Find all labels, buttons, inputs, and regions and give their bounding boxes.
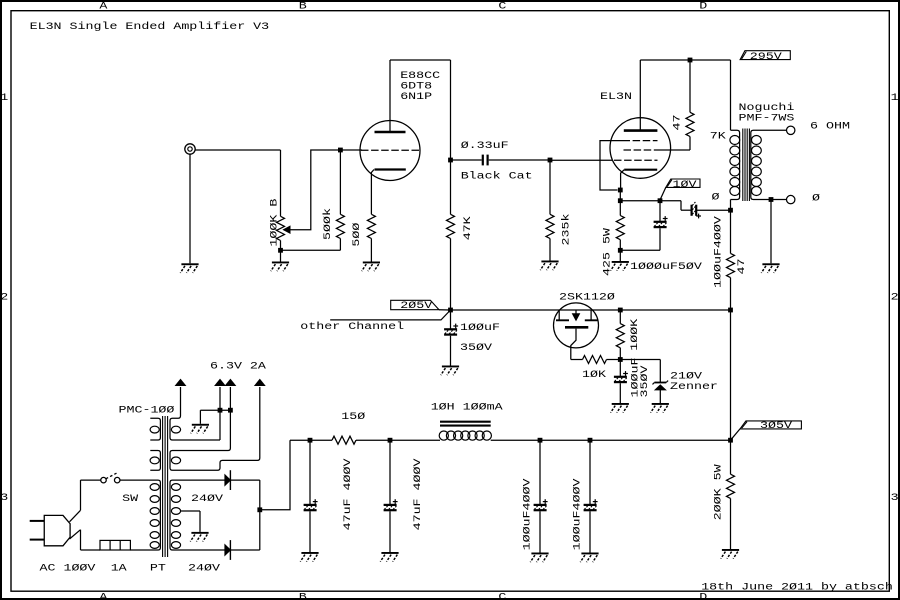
svg-text:PMF-7WS: PMF-7WS: [739, 112, 795, 124]
svg-text:18th June 2Ø11 by atbsch: 18th June 2Ø11 by atbsch: [701, 581, 893, 593]
svg-text:1ØØK: 1ØØK: [628, 318, 640, 351]
svg-text:Zenner: Zenner: [670, 380, 718, 392]
svg-text:7K: 7K: [710, 130, 727, 142]
svg-text:15Ø: 15Ø: [341, 410, 365, 422]
svg-text:EL3N Single Ended Amplifier V3: EL3N Single Ended Amplifier V3: [30, 20, 270, 32]
svg-text:1ØØuF4ØØV: 1ØØuF4ØØV: [712, 215, 724, 288]
svg-text:295V: 295V: [750, 50, 783, 62]
svg-text:1ØØuF: 1ØØuF: [460, 321, 500, 333]
svg-text:47K: 47K: [461, 215, 473, 240]
svg-text:47uF 4ØØV: 47uF 4ØØV: [341, 458, 353, 531]
svg-text:B: B: [299, 591, 307, 600]
svg-text:C: C: [498, 0, 506, 12]
svg-text:Ø: Ø: [812, 192, 820, 204]
svg-text:A: A: [99, 591, 108, 600]
svg-text:PT: PT: [150, 562, 166, 574]
svg-text:1ØV: 1ØV: [673, 178, 698, 190]
svg-text:B: B: [299, 0, 307, 12]
svg-text:3Ø5V: 3Ø5V: [760, 420, 793, 432]
svg-text:EL3N: EL3N: [600, 90, 632, 102]
svg-text:2: 2: [891, 291, 899, 303]
svg-text:2SK112Ø: 2SK112Ø: [559, 291, 615, 303]
svg-text:C: C: [498, 591, 506, 600]
svg-text:47: 47: [735, 259, 747, 275]
svg-text:1: 1: [0, 91, 8, 103]
svg-text:24ØV: 24ØV: [188, 562, 221, 574]
svg-text:AC 1ØØV: AC 1ØØV: [40, 562, 97, 574]
svg-text:1ØK: 1ØK: [582, 368, 607, 380]
svg-text:Ø.33uF: Ø.33uF: [461, 140, 509, 152]
svg-text:SW: SW: [122, 492, 139, 504]
svg-text:other Channel: other Channel: [300, 320, 404, 332]
svg-text:PMC-1ØØ: PMC-1ØØ: [119, 404, 175, 416]
svg-text:6N1P: 6N1P: [400, 90, 432, 102]
svg-text:425 5W: 425 5W: [601, 227, 613, 276]
svg-text:5ØØ: 5ØØ: [350, 223, 362, 247]
svg-text:6 OHM: 6 OHM: [810, 120, 850, 132]
svg-text:235k: 235k: [560, 214, 572, 246]
svg-text:D: D: [699, 0, 707, 12]
svg-text:2ØØK 5W: 2ØØK 5W: [712, 463, 724, 520]
svg-text:3: 3: [891, 491, 899, 503]
svg-text:1ØØØuF5ØV: 1ØØØuF5ØV: [630, 260, 703, 272]
svg-text:A: A: [99, 0, 108, 12]
svg-text:5ØØk: 5ØØk: [321, 208, 333, 240]
svg-text:1A: 1A: [111, 562, 128, 574]
svg-text:2Ø5V: 2Ø5V: [400, 300, 433, 312]
svg-text:1ØØuF4ØØV: 1ØØuF4ØØV: [521, 478, 533, 551]
svg-text:1ØØuF4ØØV: 1ØØuF4ØØV: [571, 478, 583, 551]
svg-text:1ØØK B: 1ØØK B: [268, 199, 280, 247]
svg-text:1: 1: [891, 91, 899, 103]
svg-text:1ØH 1ØØmA: 1ØH 1ØØmA: [431, 401, 504, 413]
svg-text:2: 2: [0, 291, 8, 303]
svg-text:47: 47: [671, 115, 683, 131]
svg-text:47uF 4ØØV: 47uF 4ØØV: [411, 458, 423, 531]
svg-text:35ØV: 35ØV: [638, 365, 650, 398]
svg-text:24ØV: 24ØV: [191, 493, 224, 505]
svg-text:Black Cat: Black Cat: [461, 170, 533, 182]
svg-text:Ø: Ø: [712, 191, 720, 203]
svg-text:3: 3: [0, 491, 8, 503]
svg-text:35ØV: 35ØV: [460, 342, 493, 354]
svg-text:6.3V 2A: 6.3V 2A: [210, 360, 267, 372]
